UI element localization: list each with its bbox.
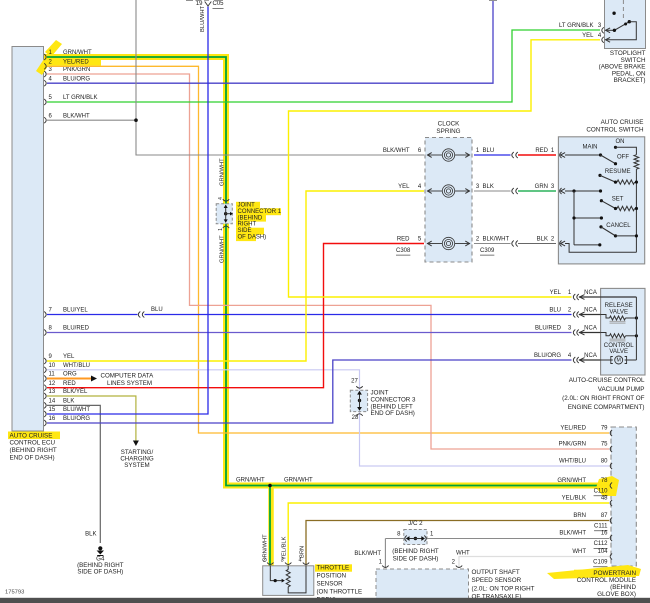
svg-text:BLK: BLK bbox=[85, 532, 96, 538]
caption POWERTRAIN CONTROL MODULE (BEHIND GLOVE BOX) bbox=[574, 570, 636, 577]
ECU caption AUTO CRUISE CONTROL ECU bbox=[8, 432, 60, 440]
inline connectors clock spring to switch bbox=[512, 152, 514, 158]
highlighter at PCM bottom edge bbox=[547, 565, 641, 579]
svg-text:104: 104 bbox=[597, 549, 608, 555]
svg-text:BRACKET): BRACKET) bbox=[614, 77, 646, 84]
wire LT GRN/BLK pin 5 to stoplight switch pin 3 bbox=[47, 30, 600, 102]
sensor pin brackets bbox=[382, 566, 388, 568]
svg-text:OF DASH): OF DASH) bbox=[238, 235, 267, 241]
PCM pin brackets and labels bbox=[557, 426, 612, 566]
svg-text:GRN/WHT: GRN/WHT bbox=[220, 158, 226, 186]
svg-text:16: 16 bbox=[601, 531, 608, 537]
svg-text:BLU/ORG: BLU/ORG bbox=[63, 76, 90, 82]
svg-text:LT GRN/BLK: LT GRN/BLK bbox=[559, 23, 593, 29]
highlighter stroke over GRN/WHT circuit bbox=[44, 57, 611, 486]
svg-text:(BEHIND RIGHT: (BEHIND RIGHT bbox=[10, 447, 57, 454]
clock spring box bbox=[425, 138, 472, 263]
clock spring coil row 2 bbox=[427, 190, 442, 192]
svg-text:1: 1 bbox=[218, 228, 224, 231]
svg-text:BLK/YEL: BLK/YEL bbox=[63, 389, 88, 395]
svg-text:YEL/RED: YEL/RED bbox=[63, 60, 89, 66]
svg-text:NCA: NCA bbox=[584, 308, 597, 314]
svg-text:C109: C109 bbox=[593, 560, 608, 566]
svg-text:87: 87 bbox=[601, 513, 608, 519]
svg-text:78: 78 bbox=[601, 478, 608, 484]
svg-text:POWERTRAIN: POWERTRAIN bbox=[593, 570, 636, 577]
svg-text:BLK/WHT: BLK/WHT bbox=[559, 531, 586, 537]
wire RED pin 12 to clock spring pin 5 bbox=[47, 244, 424, 388]
wire PNK/GRN pin 3 to PCM pin 75 bbox=[47, 74, 609, 449]
svg-text:GRN/WHT: GRN/WHT bbox=[236, 478, 265, 484]
svg-text:GLOVE BOX): GLOVE BOX) bbox=[597, 591, 636, 598]
svg-text:(BEHIND: (BEHIND bbox=[610, 584, 636, 591]
wire WHT/BLU joint connector 3 to PCM pin 80 bbox=[360, 412, 610, 466]
connector C05 bbox=[205, 2, 212, 7]
wire YEL/BLK PCM pin 48 to throttle position sensor bbox=[288, 503, 609, 566]
release valve coil bbox=[601, 315, 610, 319]
svg-text:RED: RED bbox=[63, 381, 76, 387]
caption THROTTLE POSITION SENSOR (ON THROTTLE BODY) bbox=[315, 564, 352, 571]
svg-text:VACUUM PUMP: VACUUM PUMP bbox=[598, 386, 645, 393]
svg-text:BLU/RED: BLU/RED bbox=[535, 326, 562, 332]
auto cruise control ECU box bbox=[12, 47, 44, 432]
svg-text:BLK: BLK bbox=[63, 399, 74, 405]
svg-text:11: 11 bbox=[49, 372, 56, 378]
svg-text:C112: C112 bbox=[594, 541, 609, 547]
throttle position sensor box bbox=[263, 566, 314, 596]
junction BLK/WHT bbox=[134, 118, 138, 122]
svg-text:SPEED SENSOR: SPEED SENSOR bbox=[472, 577, 522, 584]
svg-text:BRN: BRN bbox=[573, 513, 586, 519]
svg-text:12: 12 bbox=[49, 381, 56, 387]
ground G4 bbox=[98, 546, 102, 550]
svg-text:JOINT: JOINT bbox=[238, 203, 256, 209]
svg-text:SIDE OF DASH): SIDE OF DASH) bbox=[393, 556, 439, 563]
svg-text:YEL/BLK: YEL/BLK bbox=[562, 496, 586, 502]
svg-text:WHT/BLU: WHT/BLU bbox=[559, 459, 586, 465]
junction GRN/WHT bbox=[268, 484, 272, 488]
svg-text:RIGHT: RIGHT bbox=[238, 222, 257, 228]
J/C 2 symbol bbox=[414, 537, 417, 540]
switch pin 3 entry bbox=[560, 188, 562, 194]
svg-text:JOINT: JOINT bbox=[371, 390, 389, 397]
joint connector 1 box bbox=[216, 204, 232, 224]
svg-text:79: 79 bbox=[601, 426, 608, 432]
svg-text:YEL: YEL bbox=[582, 33, 594, 39]
svg-text:4: 4 bbox=[298, 558, 301, 564]
output shaft speed sensor box bbox=[376, 569, 469, 599]
svg-text:C111: C111 bbox=[594, 524, 608, 530]
clock spring coil row 1 bbox=[427, 154, 442, 156]
clock spring right stub BLK bbox=[474, 190, 511, 192]
svg-text:BLU/ORG: BLU/ORG bbox=[534, 353, 561, 359]
svg-text:VALVE: VALVE bbox=[609, 308, 628, 315]
wire BLK/YEL pin 13 to starting/charging system bbox=[47, 396, 136, 441]
svg-text:14: 14 bbox=[49, 399, 56, 405]
svg-text:BLU/WHT: BLU/WHT bbox=[200, 5, 206, 32]
svg-text:C309: C309 bbox=[480, 248, 495, 254]
svg-text:YEL: YEL bbox=[398, 184, 410, 190]
svg-text:END OF DASH): END OF DASH) bbox=[10, 455, 55, 462]
TPS internal wiper bbox=[270, 566, 281, 581]
highlighter blob at PCM pin 78 bbox=[596, 476, 619, 496]
svg-text:ORG: ORG bbox=[63, 372, 77, 378]
svg-text:CONTROL MODULE: CONTROL MODULE bbox=[577, 577, 636, 584]
svg-text:GRN: GRN bbox=[535, 184, 548, 190]
svg-text:BLK: BLK bbox=[537, 237, 548, 243]
svg-text:27: 27 bbox=[351, 379, 358, 385]
auto-cruise control vacuum pump box bbox=[601, 288, 645, 375]
svg-text:POSITION: POSITION bbox=[317, 573, 347, 580]
ECU pin brackets and labels bbox=[44, 50, 97, 426]
wire BLU/WHT pin 15 to connector C05 bbox=[47, 7, 208, 415]
svg-text:WHT/BLU: WHT/BLU bbox=[63, 363, 90, 369]
svg-text:CLOCK: CLOCK bbox=[438, 121, 460, 128]
svg-text:SYSTEM: SYSTEM bbox=[124, 462, 149, 469]
caption JOINT CONNECTOR 1 (BEHIND RIGHT SIDE OF DASH) highlighted bbox=[236, 202, 260, 209]
svg-text:NCA: NCA bbox=[584, 326, 597, 332]
svg-text:SPRING: SPRING bbox=[436, 128, 460, 135]
svg-text:OUTPUT SHAFT: OUTPUT SHAFT bbox=[472, 569, 520, 576]
resistor in switch bbox=[634, 155, 639, 169]
svg-text:COMPUTER DATA: COMPUTER DATA bbox=[101, 373, 155, 380]
joint connector 3 symbol bbox=[358, 399, 361, 402]
svg-text:ON: ON bbox=[616, 139, 625, 145]
svg-text:LINES SYSTEM: LINES SYSTEM bbox=[107, 380, 152, 387]
stoplight switch box bbox=[605, 0, 646, 49]
svg-text:C308: C308 bbox=[396, 248, 411, 254]
wire RED to switch pin 1 bbox=[518, 154, 556, 156]
svg-text:BRN: BRN bbox=[299, 546, 305, 558]
svg-text:BLK/WHT: BLK/WHT bbox=[383, 148, 410, 154]
svg-text:CONTROL ECU: CONTROL ECU bbox=[10, 440, 56, 447]
svg-text:10: 10 bbox=[49, 363, 56, 369]
svg-text:BLK/WHT: BLK/WHT bbox=[354, 551, 381, 557]
wire BLU/RED pin 8 to vacuum pump pin 3 bbox=[47, 332, 572, 334]
joint connector 1 symbol bbox=[224, 212, 227, 215]
wire WHT output shaft speed sensor pin 2 to PCM pin 104 bbox=[459, 557, 609, 568]
svg-text:BLU: BLU bbox=[549, 308, 561, 314]
svg-text:OFF: OFF bbox=[617, 155, 629, 161]
svg-text:BLU/RED: BLU/RED bbox=[63, 326, 90, 332]
svg-text:BLU/WHT: BLU/WHT bbox=[63, 407, 90, 413]
svg-text:75: 75 bbox=[601, 442, 608, 448]
svg-text:BLK: BLK bbox=[483, 184, 494, 190]
svg-text:BLK/WHT: BLK/WHT bbox=[483, 237, 510, 243]
svg-text:AUTO CRUISE: AUTO CRUISE bbox=[10, 432, 53, 439]
wire BRN PCM pin 87 to throttle position sensor bbox=[306, 521, 609, 566]
TPS internal resistor bbox=[287, 566, 289, 570]
svg-text:NCA: NCA bbox=[584, 290, 597, 296]
svg-text:48: 48 bbox=[601, 496, 608, 502]
clock spring coil row 3 bbox=[427, 243, 442, 245]
svg-text:CONTROL SWITCH: CONTROL SWITCH bbox=[586, 126, 644, 133]
svg-text:15: 15 bbox=[49, 407, 56, 413]
control valve coil bbox=[601, 333, 610, 336]
switch pin 1 entry bbox=[560, 152, 562, 158]
svg-text:YEL/BLK: YEL/BLK bbox=[281, 536, 287, 560]
pump motor bbox=[601, 359, 613, 361]
svg-text:RESUME: RESUME bbox=[605, 169, 631, 175]
powertrain control module box bbox=[611, 427, 636, 566]
pump internal rail bbox=[635, 297, 637, 360]
svg-text:YEL: YEL bbox=[550, 290, 562, 296]
svg-text:SENSOR: SENSOR bbox=[317, 581, 344, 588]
svg-text:80: 80 bbox=[601, 459, 608, 465]
svg-text:WHT: WHT bbox=[572, 549, 586, 555]
svg-text:SET: SET bbox=[612, 196, 624, 202]
vacuum pump pin entries with NCA wires bbox=[534, 290, 601, 363]
inline connector on pin 7 wire bbox=[138, 312, 140, 318]
joint connector 3 box bbox=[350, 390, 367, 411]
svg-text:AUTO-CRUISE CONTROL: AUTO-CRUISE CONTROL bbox=[569, 377, 645, 384]
svg-text:(2.0L: ON RIGHT FRONT OF: (2.0L: ON RIGHT FRONT OF bbox=[562, 395, 644, 402]
svg-text:GRN/WHT: GRN/WHT bbox=[557, 478, 586, 484]
bottom border bar bbox=[0, 598, 650, 603]
svg-text:GRN/WHT: GRN/WHT bbox=[63, 50, 92, 56]
svg-text:BLU: BLU bbox=[151, 307, 163, 313]
svg-text:BLU: BLU bbox=[483, 148, 495, 154]
wire WHT/BLU pin 10 to joint connector 3 bbox=[47, 370, 360, 391]
svg-text:RED: RED bbox=[397, 237, 410, 243]
svg-text:END OF DASH): END OF DASH) bbox=[371, 410, 415, 417]
wire BLU/ORG pin 4 exits top of page bbox=[47, 0, 493, 83]
svg-text:MAIN: MAIN bbox=[583, 145, 598, 151]
svg-text:PNK/GRN: PNK/GRN bbox=[559, 442, 586, 448]
clock spring right stub BLU bbox=[474, 154, 511, 156]
svg-text:BLU/ORG: BLU/ORG bbox=[63, 416, 90, 422]
svg-text:2: 2 bbox=[263, 558, 266, 564]
svg-text:ENGINE COMPARTMENT): ENGINE COMPARTMENT) bbox=[568, 404, 645, 411]
svg-text:(BEHIND: (BEHIND bbox=[238, 215, 263, 221]
svg-text:GRN/WHT: GRN/WHT bbox=[220, 235, 226, 263]
svg-text:RED: RED bbox=[535, 148, 548, 154]
wire BLK to switch pin 2 bbox=[518, 243, 556, 245]
switch pin 2 entry bbox=[560, 241, 562, 247]
TPS pin brackets and numbers bbox=[267, 563, 273, 565]
svg-text:J/C 2: J/C 2 bbox=[408, 520, 423, 527]
svg-text:C05: C05 bbox=[213, 1, 225, 7]
svg-text:VALVE: VALVE bbox=[609, 348, 628, 355]
wire BLK pin 14 to ground G4 bbox=[47, 405, 100, 543]
wire BLK/WHT from top of page to clock spring pin 6 bbox=[136, 0, 424, 155]
svg-text:BLU/YEL: BLU/YEL bbox=[63, 308, 88, 314]
svg-text:175793: 175793 bbox=[5, 590, 24, 596]
cut-off text at top edge bbox=[186, 0, 193, 1]
svg-text:CONNECTOR 1: CONNECTOR 1 bbox=[238, 209, 282, 215]
svg-text:16: 16 bbox=[49, 416, 56, 422]
wire YEL/RED pin 2 to PCM pin 79 bbox=[47, 66, 609, 433]
wire GRN to switch pin 3 bbox=[518, 190, 556, 192]
auto cruise control switch box bbox=[558, 137, 644, 264]
clock spring right stub BLK/WHT bbox=[474, 243, 511, 245]
wire GRN/WHT pin 1 to PCM pin 78 bbox=[47, 57, 610, 486]
svg-text:CANCEL: CANCEL bbox=[606, 223, 631, 229]
svg-text:3: 3 bbox=[281, 558, 284, 564]
wire BLK/WHT PCM pin 16 through J/C 2 to output shaft speed sensor bbox=[427, 538, 609, 540]
svg-text:(ON THROTTLE: (ON THROTTLE bbox=[317, 589, 363, 596]
svg-text:PNK/GRN: PNK/GRN bbox=[63, 67, 90, 73]
wire BLK/WHT pin 6 bbox=[47, 119, 136, 121]
svg-text:13: 13 bbox=[49, 389, 56, 395]
svg-text:C110: C110 bbox=[594, 489, 609, 495]
svg-text:SIDE OF DASH): SIDE OF DASH) bbox=[77, 569, 123, 576]
svg-text:(2.0L: ON TOP RIGHT: (2.0L: ON TOP RIGHT bbox=[472, 586, 535, 593]
ON contact bbox=[614, 146, 617, 149]
svg-text:BLK/WHT: BLK/WHT bbox=[63, 113, 90, 119]
highlighter blobs at ECU pins 1-2 bbox=[45, 40, 62, 57]
wire YEL pin 9 to clock spring pin 4 bbox=[47, 191, 424, 361]
svg-text:YEL/RED: YEL/RED bbox=[560, 426, 586, 432]
svg-text:AUTO CRUISE: AUTO CRUISE bbox=[601, 119, 644, 126]
svg-text:M: M bbox=[617, 357, 621, 363]
wire BLU/YEL pin 7 bbox=[47, 314, 138, 316]
svg-text:4: 4 bbox=[218, 197, 224, 200]
svg-text:SIDE: SIDE bbox=[238, 228, 252, 234]
svg-text:28: 28 bbox=[352, 415, 359, 421]
stoplight switch internals bbox=[622, 0, 624, 19]
svg-text:YEL: YEL bbox=[63, 354, 75, 360]
svg-text:LT GRN/BLK: LT GRN/BLK bbox=[63, 95, 97, 101]
svg-text:(BEHIND RIGHT: (BEHIND RIGHT bbox=[392, 548, 439, 555]
wire YEL stoplight switch pin 4 to vacuum pump pin 1 bbox=[289, 40, 601, 297]
J/C 2 box bbox=[404, 530, 427, 545]
svg-text:WHT: WHT bbox=[456, 551, 470, 557]
wire BLU/ORG pin 16 to vacuum pump pin 4 bbox=[47, 360, 572, 423]
left rail in switch bbox=[573, 191, 575, 245]
wire BLU to vacuum pump pin 2 bbox=[145, 314, 572, 316]
svg-text:NCA: NCA bbox=[584, 353, 597, 359]
wire GRN/WHT branch to throttle position sensor bbox=[269, 486, 271, 566]
wire ORG pin 11 computer data lines arrow bbox=[47, 378, 91, 380]
svg-text:GRN/WHT: GRN/WHT bbox=[284, 478, 313, 484]
svg-text:THROTTLE: THROTTLE bbox=[317, 565, 350, 572]
